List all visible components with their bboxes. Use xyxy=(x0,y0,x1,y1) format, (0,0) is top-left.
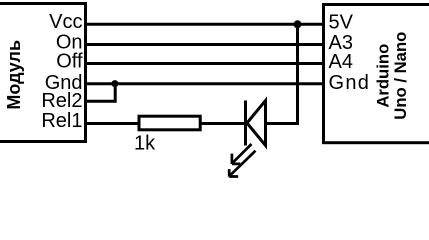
svg-text:Rel1: Rel1 xyxy=(41,110,82,132)
svg-text:Vcc: Vcc xyxy=(49,11,82,33)
LED light arrow 2 xyxy=(229,151,255,177)
wire Rel2 to Gnd net xyxy=(85,84,115,102)
wire On to A3 xyxy=(85,43,322,46)
svg-text:1k: 1k xyxy=(134,133,156,155)
wire Vcc to 5V xyxy=(85,23,322,26)
svg-text:A4: A4 xyxy=(329,51,353,73)
wire LED to Vcc net xyxy=(266,24,298,123)
svg-text:5V: 5V xyxy=(329,11,354,33)
junction dot on Vcc net xyxy=(294,20,302,28)
junction dot on Gnd net xyxy=(111,80,118,87)
wire resistor to LED xyxy=(200,122,245,125)
wire Off to A4 xyxy=(85,62,322,65)
resistor R1 body xyxy=(139,116,200,130)
arduino box U2 (Arduino Uno / Nano) xyxy=(324,5,429,143)
svg-text:Gnd: Gnd xyxy=(329,72,371,94)
wire Gnd to Gnd xyxy=(85,82,322,85)
wire Rel1 to resistor xyxy=(85,122,139,125)
svg-text:Модуль: Модуль xyxy=(4,40,24,110)
LED D1 triangle xyxy=(247,101,266,146)
svg-text:Rel2: Rel2 xyxy=(41,90,82,112)
svg-text:Arduino: Arduino xyxy=(374,44,393,108)
svg-text:Off: Off xyxy=(56,51,83,73)
module box U1 (Модуль) xyxy=(0,4,86,142)
LED D1 cathode bar xyxy=(244,101,247,146)
svg-text:Uno / Nano: Uno / Nano xyxy=(391,32,410,120)
LED light arrow 1 xyxy=(232,144,252,164)
